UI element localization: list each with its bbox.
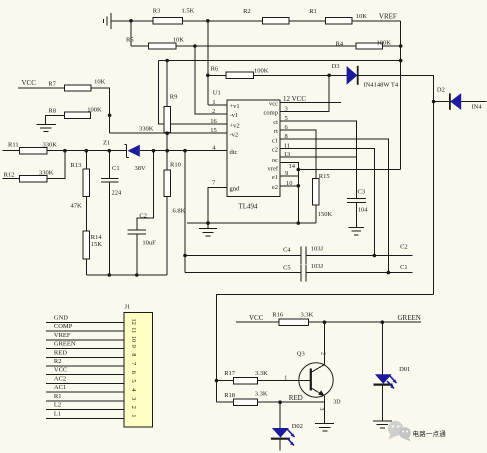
svg-text:电路一点通: 电路一点通 <box>413 429 447 438</box>
svg-text:R9: R9 <box>170 94 178 101</box>
node junction (207.8,21) <box>206 19 210 23</box>
wire from D2 net down-left to Q3 block <box>217 295 434 403</box>
svg-text:R15: R15 <box>319 173 330 180</box>
svg-text:D3: D3 <box>332 63 340 70</box>
LED D02 <box>279 402 281 428</box>
svg-text:3.3K: 3.3K <box>255 390 268 397</box>
wire vertical B with resistor R9 <box>166 61 168 107</box>
resistor R4 <box>356 43 383 49</box>
svg-text:R2: R2 <box>54 358 62 365</box>
svg-text:gnd: gnd <box>230 186 241 193</box>
resistor R14 <box>83 231 90 259</box>
svg-text:38V: 38V <box>135 165 147 172</box>
svg-text:COMP: COMP <box>54 323 73 330</box>
svg-text:R7: R7 <box>48 81 56 88</box>
wire base <box>257 380 310 382</box>
svg-text:U1: U1 <box>213 89 221 96</box>
svg-text:103J: 103J <box>311 246 324 253</box>
svg-text:100K: 100K <box>377 40 392 47</box>
svg-text:R12: R12 <box>4 171 15 178</box>
svg-text:comp: comp <box>264 110 278 117</box>
svg-text:10: 10 <box>130 336 137 343</box>
svg-text:R18: R18 <box>224 392 235 399</box>
wire y60 line <box>159 60 401 62</box>
ground under C3 <box>349 227 365 234</box>
svg-text:1: 1 <box>284 375 287 381</box>
svg-text:TL494: TL494 <box>239 203 259 211</box>
node junction D2 <box>432 100 436 104</box>
wire <box>461 101 486 103</box>
svg-text:104: 104 <box>358 207 369 214</box>
svg-text:VREF: VREF <box>379 12 397 20</box>
svg-text:IN4: IN4 <box>472 104 483 111</box>
svg-text:R14: R14 <box>91 234 103 241</box>
LED D01 <box>381 322 383 374</box>
svg-text:330K: 330K <box>39 170 54 177</box>
svg-text:R2: R2 <box>243 8 251 15</box>
wire C4-net vertical <box>184 151 186 273</box>
Q3 emitter with arrow <box>311 388 325 396</box>
wire vertical A to pin16 <box>159 61 228 125</box>
pin1 wire <box>208 104 227 106</box>
svg-text:1: 1 <box>130 414 137 417</box>
ground under Q3 <box>315 424 334 431</box>
capacitor C3 <box>347 198 366 227</box>
svg-text:11: 11 <box>130 327 137 333</box>
watermark logo <box>388 421 403 440</box>
svg-text:R17: R17 <box>224 370 236 377</box>
svg-text:e1: e1 <box>272 174 278 181</box>
svg-text:3: 3 <box>318 408 324 411</box>
capacitor C2 <box>127 230 146 234</box>
svg-text:c2: c2 <box>272 147 278 154</box>
svg-text:R11: R11 <box>8 142 19 149</box>
svg-text:-v1: -v1 <box>230 112 239 119</box>
wire vertical pin2 net <box>195 46 227 114</box>
pin9 stub <box>280 175 298 177</box>
svg-text:+v1: +v1 <box>230 103 240 110</box>
svg-text:L2: L2 <box>54 402 61 409</box>
resistor R12 <box>3 178 20 180</box>
wire pin15 feedback row <box>110 132 228 134</box>
node junction pin2 net <box>193 44 197 48</box>
svg-text:R5: R5 <box>126 37 134 44</box>
svg-text:D01: D01 <box>399 366 410 373</box>
svg-text:vref: vref <box>268 165 279 172</box>
wire <box>85 259 87 275</box>
svg-text:12: 12 <box>130 318 137 325</box>
svg-text:150K: 150K <box>318 211 333 218</box>
wire to GREEN <box>308 321 421 323</box>
svg-text:C4: C4 <box>283 247 291 254</box>
gnd rail under U1 <box>187 222 316 224</box>
capacitor C1 <box>108 151 110 179</box>
wire <box>434 101 450 103</box>
svg-text:D2: D2 <box>437 87 445 94</box>
resistor R11 <box>19 148 46 154</box>
svg-text:C3: C3 <box>358 188 366 195</box>
svg-text:103J: 103J <box>311 263 324 270</box>
resistor R18 row <box>217 401 234 403</box>
svg-text:8: 8 <box>130 353 137 356</box>
svg-text:C5: C5 <box>283 265 291 272</box>
svg-text:RED: RED <box>54 349 67 356</box>
svg-text:R4: R4 <box>336 41 344 48</box>
resistor R3 <box>153 18 183 24</box>
svg-text:3D: 3D <box>333 400 341 406</box>
wire <box>182 20 262 22</box>
svg-text:c1: c1 <box>272 137 278 144</box>
svg-text:15K: 15K <box>91 241 103 248</box>
svg-text:GND: GND <box>54 314 68 321</box>
resistor R1 <box>326 18 352 24</box>
resistor R10 <box>166 151 168 171</box>
svg-text:15: 15 <box>210 127 217 134</box>
U1 left inside labels <box>230 103 241 192</box>
svg-text:VCC: VCC <box>22 79 37 87</box>
svg-text:16: 16 <box>210 118 217 125</box>
svg-text:3: 3 <box>130 397 137 400</box>
op-amp/PWM U1 TL494 body <box>227 100 280 197</box>
svg-text:3.3K: 3.3K <box>255 370 268 377</box>
svg-text:47K: 47K <box>71 203 83 210</box>
svg-text:D02: D02 <box>292 423 303 430</box>
svg-text:GREEN: GREEN <box>398 314 421 322</box>
J1 pin wires and nets <box>46 322 124 418</box>
U1 left pin numbers <box>210 99 217 186</box>
svg-text:100K: 100K <box>254 68 269 75</box>
svg-text:10K: 10K <box>173 37 185 44</box>
svg-text:12 VCC: 12 VCC <box>283 95 306 103</box>
capacitor C4 <box>301 246 306 264</box>
wire top net y21 <box>111 20 153 22</box>
svg-text:10K: 10K <box>94 79 106 86</box>
pin13 wire <box>280 156 356 158</box>
U1 right pin numbers <box>284 106 296 187</box>
wire <box>289 20 326 22</box>
svg-text:R1: R1 <box>309 8 317 15</box>
svg-text:C1: C1 <box>112 165 120 172</box>
wire C4 row <box>185 255 301 257</box>
resistor R7 <box>65 85 92 91</box>
svg-text:R10: R10 <box>170 162 181 169</box>
wire <box>85 197 87 231</box>
svg-text:1.5K: 1.5K <box>182 8 195 15</box>
wire <box>236 321 279 323</box>
svg-text:100K: 100K <box>87 106 102 113</box>
svg-text:VCC: VCC <box>249 314 264 322</box>
pin8 wire to C1 row <box>280 139 388 272</box>
pin7 gnd wire <box>208 188 227 224</box>
svg-text:9: 9 <box>130 345 137 348</box>
svg-text:ct: ct <box>273 119 278 126</box>
pin12 VCC stub <box>280 101 341 103</box>
wire D3 cathode to D2 rail <box>358 75 433 294</box>
svg-text:VCC: VCC <box>54 367 67 374</box>
wire <box>176 45 356 47</box>
wire vertical VREF rail <box>400 21 402 170</box>
wire VREF feed <box>298 169 400 171</box>
svg-text:L1: L1 <box>54 410 61 417</box>
wire pin3 net to D3 anode <box>280 75 329 111</box>
svg-text:10uF: 10uF <box>142 240 156 247</box>
capacitor C2 riser <box>137 151 154 230</box>
svg-text:dtc: dtc <box>230 149 238 156</box>
svg-text:R8: R8 <box>49 107 57 114</box>
svg-text:C2: C2 <box>400 244 408 251</box>
svg-text:330K: 330K <box>139 126 154 133</box>
node junction D3 anode <box>327 74 331 78</box>
svg-text:224: 224 <box>112 190 123 197</box>
svg-text:IN4148W T4: IN4148W T4 <box>364 82 399 89</box>
svg-text:AC2: AC2 <box>54 375 66 382</box>
node junction (131,21) <box>129 19 133 23</box>
svg-text:J1: J1 <box>125 304 131 311</box>
diode D2 <box>449 93 451 110</box>
svg-text:R13: R13 <box>71 162 82 169</box>
wire bottom-left rail <box>86 274 167 276</box>
transistor Q3 <box>299 363 333 397</box>
svg-text:VREF: VREF <box>54 332 71 339</box>
wire <box>254 74 347 76</box>
svg-text:3.3K: 3.3K <box>301 311 314 318</box>
svg-text:vcc: vcc <box>269 101 278 108</box>
resistor R9 <box>164 106 171 132</box>
pin5 wire to C3 <box>280 121 356 199</box>
pin6 wire to R15 <box>280 130 316 178</box>
resistor R13 <box>85 151 87 169</box>
pin10 stub <box>280 185 298 187</box>
resistor R6 <box>226 72 254 78</box>
node junction R9 top <box>165 59 169 63</box>
resistor R5 <box>149 43 176 49</box>
wire R15 bottom <box>315 205 317 223</box>
svg-text:+v2: +v2 <box>230 122 240 129</box>
resistor R15 <box>312 178 319 205</box>
svg-text:2: 2 <box>212 108 215 115</box>
wire R6 row <box>208 74 226 76</box>
svg-text:330K: 330K <box>43 142 58 149</box>
resistor R8 <box>64 112 90 118</box>
svg-text:2: 2 <box>320 352 326 355</box>
svg-text:14: 14 <box>289 163 296 170</box>
svg-text:Z1: Z1 <box>103 140 110 147</box>
wire RED row <box>257 401 324 403</box>
wire vertical pin1 net <box>207 21 209 105</box>
J1 pin numbers (rotated) <box>130 318 137 417</box>
svg-text:5: 5 <box>130 379 137 382</box>
pin11 wire to C2 row <box>280 148 374 255</box>
svg-text:C1: C1 <box>400 264 408 271</box>
svg-text:R6: R6 <box>211 66 219 73</box>
wire <box>383 45 401 47</box>
resistor R2 <box>263 18 290 24</box>
ground under D01 <box>373 421 392 428</box>
resistor R16 <box>279 319 308 325</box>
wire R12 up to rail <box>47 151 65 179</box>
svg-text:R3: R3 <box>153 8 161 15</box>
wire R5 row <box>131 45 149 47</box>
Q3 collector <box>311 322 325 372</box>
svg-text:GREEN: GREEN <box>54 341 76 348</box>
svg-text:-v2: -v2 <box>230 131 239 138</box>
node junction R8 <box>108 114 112 118</box>
svg-text:RED: RED <box>289 394 303 402</box>
wire R8 left to ground <box>46 115 65 124</box>
svg-text:10K: 10K <box>356 13 368 20</box>
ground GND top-left (rotated) <box>104 13 111 29</box>
svg-text:R1: R1 <box>54 393 62 400</box>
U1 right inside labels <box>264 101 279 191</box>
svg-text:e2: e2 <box>272 184 278 191</box>
node junctions on rail <box>63 149 67 153</box>
pin14 stub <box>280 163 298 170</box>
svg-text:Q3: Q3 <box>297 350 305 357</box>
svg-text:3: 3 <box>285 106 288 113</box>
capacitor C5 <box>301 265 306 282</box>
ground under R8 <box>37 124 56 131</box>
svg-text:R16: R16 <box>272 311 284 318</box>
svg-text:C2: C2 <box>139 213 147 220</box>
wire C5 row <box>185 272 301 274</box>
svg-text:oc: oc <box>272 157 278 164</box>
wire R7 to R8 node <box>91 88 109 133</box>
svg-text:rt: rt <box>274 128 278 135</box>
ground symbol under U1 <box>199 223 217 236</box>
wire to VREF corner <box>352 20 401 22</box>
wire <box>18 87 65 89</box>
wire dtc rail y150.7 <box>3 150 127 152</box>
wire emitters to gnd rail <box>297 170 299 224</box>
wire vertical from node 131 <box>130 21 132 46</box>
wire <box>166 132 168 150</box>
svg-text:2: 2 <box>130 406 137 409</box>
svg-text:6.8K: 6.8K <box>173 207 186 214</box>
resistor R17 (base) <box>217 380 234 382</box>
svg-text:AC1: AC1 <box>54 384 66 391</box>
diode D3 <box>347 66 358 85</box>
